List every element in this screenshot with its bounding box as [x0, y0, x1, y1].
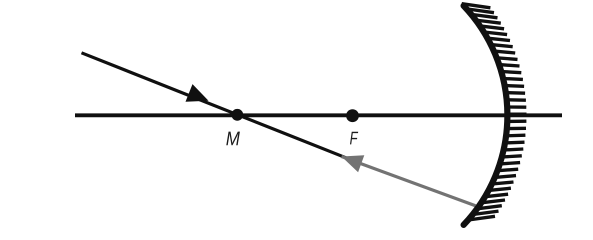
arrowhead on incident ray: [186, 84, 209, 102]
point M (center of curvature): [231, 109, 243, 121]
principal axis: [75, 113, 562, 117]
label F: [350, 132, 358, 145]
mirror hatching: [462, 4, 527, 220]
arrowhead on reflected ray (gray): [342, 155, 365, 172]
point F (focal point): [346, 109, 359, 122]
concave mirror arc: [464, 6, 508, 225]
reflected ray (gray, from mirror back through M): [342, 157, 476, 206]
label M: [226, 132, 240, 146]
incident ray (black, through M toward mirror): [82, 53, 353, 160]
